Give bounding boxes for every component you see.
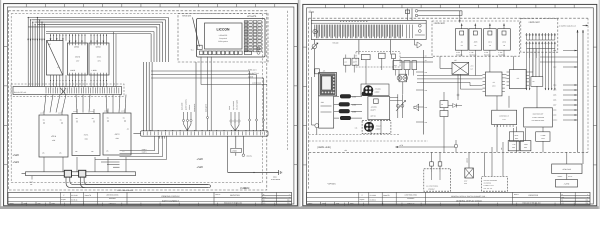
wire fan group 1	[183, 112, 185, 124]
svg-text:=S20+S20: =S20+S20	[434, 22, 446, 25]
unit box -GP 2 top pin stubs	[107, 109, 109, 114]
wire fan group 2	[230, 112, 232, 125]
svg-text:003: 003	[287, 203, 290, 205]
horizontal runs above busbar	[95, 158, 120, 160]
crossing wires in strip	[61, 88, 67, 95]
earth wire below strip	[313, 40, 315, 45]
svg-text:-MT: -MT	[48, 43, 51, 46]
relay -K1 top pin	[461, 24, 463, 29]
page2 title block frame	[307, 192, 591, 204]
power supply module -G1 1 box	[89, 43, 109, 75]
relay -K6 1 bottom drop	[489, 50, 491, 56]
earth cable curve 2	[80, 177, 208, 188]
svg-text:GENERAL DISPLAY: GENERAL DISPLAY	[161, 195, 180, 198]
svg-text:L5B: L5B	[501, 148, 503, 150]
svg-text:1.16 V: 1.16 V	[58, 113, 62, 115]
component row right of relays	[361, 55, 370, 60]
enclosure right dashed boundary	[287, 11, 289, 150]
svg-text:C4BEN: C4BEN	[240, 187, 249, 190]
svg-text:SCRN: SCRN	[352, 97, 356, 99]
bw wires	[566, 152, 568, 164]
svg-text:GENL: GENL	[515, 135, 519, 137]
relay -K6 2 bottom drop	[503, 50, 505, 56]
svg-text:+L1: +L1	[191, 49, 194, 52]
relay -K3 small box	[352, 58, 359, 65]
svg-text:002: 002	[586, 200, 589, 202]
relay -K2 small box	[344, 58, 351, 65]
box GENL DISP small	[509, 132, 523, 142]
dash box =S20+S22	[521, 18, 558, 52]
page1 title block frame	[8, 192, 292, 204]
mini LICCON display panel	[319, 73, 337, 96]
wire staircase bundle corners	[168, 18, 170, 63]
box MONITOR CRT	[524, 108, 553, 127]
svg-text:AMBER: AMBER	[558, 176, 563, 178]
indicator lamp 2	[403, 76, 408, 81]
diode symbols	[453, 104, 457, 108]
svg-text:lfd: lfd	[562, 200, 564, 202]
pin grid rows	[526, 33, 528, 40]
corner wire y84.5	[200, 57, 202, 85]
svg-text:CCM-system: CCM-system	[218, 40, 228, 43]
svg-text:TEST: TEST	[541, 138, 545, 140]
ferrite sleeve 4	[340, 116, 350, 119]
ferrite wires	[334, 95, 339, 97]
relay -K6 2 top pin	[503, 24, 505, 29]
wire -W40B with label	[235, 136, 237, 148]
svg-text:-GP B: -GP B	[51, 135, 57, 138]
svg-text:SCREEN BAR: SCREEN BAR	[252, 82, 261, 84]
page2 revision history cells	[320, 202, 322, 205]
relay bank -K11	[393, 61, 402, 70]
svg-text:L5D6: L5D6	[553, 100, 557, 102]
interconnect wires	[417, 75, 483, 77]
svg-text:SCRN: SCRN	[352, 105, 356, 107]
strip top tiny marks	[340, 20, 341, 22]
page2 drawing title cell	[425, 192, 427, 204]
svg-text:=S20+S22: =S20+S22	[528, 21, 540, 24]
plug contacts	[415, 10, 418, 13]
svg-text:SCRN: SCRN	[352, 112, 356, 114]
-G1 M internal pin marks	[69, 43, 71, 45]
page1 register cell	[261, 192, 263, 204]
relay -K1 bottom drop	[461, 50, 463, 56]
svg-text:+S20: +S20	[197, 158, 204, 161]
svg-text:L5D2: L5D2	[553, 67, 557, 69]
svg-text:von: von	[562, 203, 564, 205]
junction box ground circle	[315, 124, 319, 128]
arrow label +S7B	[396, 146, 456, 148]
svg-text:L5D3: L5D3	[553, 85, 557, 87]
flag triangle below strip	[417, 42, 422, 48]
mini panel screen	[322, 76, 331, 90]
amber wire to lamp	[468, 152, 470, 168]
wire -W40B drop	[227, 136, 229, 172]
box C4DN	[520, 141, 531, 151]
enclosure cabinet dash box inner	[11, 14, 262, 183]
svg-text:-NT 1: -NT 1	[84, 134, 89, 137]
svg-text:1.16 V: 1.16 V	[104, 111, 108, 113]
page1 ruler ticks	[25, 4, 27, 7]
enclosure cabinet +S20 dash box outer	[8, 11, 267, 190]
svg-text:+S20: +S20	[13, 154, 20, 157]
wire from strip to converter	[440, 67, 452, 69]
left wire drop	[311, 77, 313, 125]
svg-text:u xxx: u xxx	[502, 119, 506, 121]
svg-text:003: 003	[586, 203, 589, 205]
IC row top bus horizontals	[46, 31, 154, 33]
relay -K6 B bottom drop	[474, 50, 476, 56]
unit box -GP B top pin stubs	[43, 111, 45, 116]
page2 date name cells	[358, 192, 360, 204]
ladder long feed wires	[540, 56, 578, 58]
IC -A2 side pins	[507, 71, 510, 73]
dashed box LVL conditioning	[424, 169, 451, 191]
small modules right	[531, 77, 543, 87]
svg-text:REGISTER: REGISTER	[230, 194, 240, 197]
relay -K6 1 top pin	[489, 24, 491, 29]
IC -A1 side pins	[483, 74, 486, 76]
svg-text:L5D7: L5D7	[553, 105, 557, 107]
wire drop x359	[358, 40, 360, 55]
page1 inner border frame	[7, 7, 294, 204]
strip -X80 sparse right pins	[406, 25, 408, 39]
page1 date name cells	[59, 192, 61, 204]
wires above C4D boxes	[513, 128, 515, 141]
strip -X80 socket circle	[313, 29, 317, 33]
fuses into dashed box	[431, 152, 433, 162]
unit box -NT 1	[72, 114, 100, 156]
wires into slip ring box	[484, 152, 486, 176]
ferrite sleeve 2	[339, 103, 349, 106]
svg-text:Ges: Ges	[562, 197, 565, 199]
LICCON bottom key row	[200, 51, 204, 55]
svg-text:L5D10: L5D10	[553, 120, 557, 122]
distribution wire x423	[423, 50, 425, 135]
round connector -X5	[361, 84, 389, 96]
svg-text:Ges: Ges	[263, 197, 266, 199]
LICCON monitor panel outer	[197, 19, 266, 58]
ladder stubs	[563, 50, 578, 52]
svg-text:SLIP RING TRANSMSN: SLIP RING TRANSMSN	[484, 180, 498, 182]
svg-text:-C4D: -C4D	[512, 144, 515, 146]
page1 sheet number cells	[262, 194, 292, 196]
relay module -K6 B	[469, 29, 482, 51]
svg-text:L5D: L5D	[425, 90, 428, 92]
transformer T1 box	[47, 41, 64, 76]
svg-text:1.16 V: 1.16 V	[40, 113, 44, 115]
svg-text:LICCON: LICCON	[217, 28, 231, 32]
box GENL DISP main	[552, 164, 582, 174]
svg-text:-G1 M: -G1 M	[75, 56, 81, 59]
svg-text:VIA CENTRE: VIA CENTRE	[484, 183, 492, 185]
terminal strip -X1 pins	[143, 132, 145, 136]
IC row bottom pin wires	[50, 75, 52, 87]
IC row top pin wires	[50, 34, 52, 41]
svg-text:AUX - NO - CO: AUX - NO - CO	[484, 188, 493, 190]
svg-text:1: 1	[310, 9, 311, 12]
connector at pointer end	[197, 45, 202, 49]
svg-text:ASSEMBLY: ASSEMBLY	[428, 188, 435, 190]
earth clamp 1	[64, 170, 71, 177]
circuit breaker -F1	[407, 9, 409, 21]
ferrite top	[362, 92, 372, 96]
sheet arrow symbol top-left	[309, 11, 314, 13]
svg-text:Computed: Computed	[219, 37, 227, 40]
LICCON panel mounting screws	[257, 51, 260, 54]
LICCON screen bezel	[205, 23, 243, 49]
svg-text:L5D: L5D	[425, 72, 428, 74]
wire bundle top-left verticals	[27, 18, 29, 87]
box CONTROLS 5	[492, 110, 517, 124]
lamp crossed box	[465, 168, 474, 178]
busbar tap label	[31, 176, 33, 180]
svg-text:EARTH CONNECT: EARTH CONNECT	[162, 200, 180, 203]
terminal strip -X1 body	[141, 131, 268, 136]
relay module -K1	[455, 29, 468, 51]
svg-text:L5D9: L5D9	[553, 115, 557, 117]
indicator lamp 1	[397, 76, 402, 81]
LICCON drop wires	[207, 57, 209, 131]
svg-text:CHK: CHK	[464, 183, 467, 185]
relay -K4 column	[440, 101, 448, 108]
relay bank pins	[395, 70, 397, 76]
svg-text:GMB(H) 42: GMB(H) 42	[109, 203, 116, 205]
A6 bottom drops	[370, 120, 372, 135]
box B+W	[556, 180, 578, 188]
strip -X1 left tail	[133, 133, 140, 135]
earth clamp 2	[79, 170, 86, 177]
svg-text:REG: REG	[512, 147, 515, 149]
power supply module -G1 M box	[68, 43, 88, 75]
controls bottom pins	[494, 125, 496, 127]
svg-text:DISP: DISP	[515, 138, 518, 140]
svg-text:[X8ZB +K4K]: [X8ZB +K4K]	[318, 146, 332, 149]
svg-text:L5D5: L5D5	[553, 95, 557, 97]
relay module -K6 1	[484, 29, 497, 51]
svg-text:12 INCH COLOUR: 12 INCH COLOUR	[532, 117, 544, 119]
svg-text:-GP 2: -GP 2	[115, 133, 120, 136]
svg-text:-A5: -A5	[323, 69, 326, 72]
svg-text:-C4DN: -C4DN	[523, 144, 527, 146]
relay module -K6 2	[498, 29, 511, 51]
dashed sub-box component row	[356, 52, 400, 68]
wire bundle top horizontals	[29, 17, 169, 19]
earth cable curve 1	[66, 177, 208, 188]
relay -K6 B top pin	[474, 24, 476, 29]
page2 outer border frame	[303, 4, 597, 205]
IC box -A1	[485, 72, 502, 96]
svg-text:AMBER: AMBER	[467, 158, 469, 163]
inner dash boundary [X8ZB]	[309, 134, 400, 136]
svg-text:REGISTER: REGISTER	[529, 194, 539, 197]
page1 drawing title cell	[126, 192, 128, 204]
svg-text:GMB(H) 42: GMB(H) 42	[407, 203, 414, 205]
svg-text:L5D8: L5D8	[553, 110, 557, 112]
svg-text:LIEBHERR: LIEBHERR	[219, 34, 228, 37]
bus verticals to strip	[113, 32, 115, 87]
page2 register cell	[560, 192, 562, 204]
feed drop arrow	[459, 11, 461, 23]
svg-text:-G1 1: -G1 1	[97, 56, 102, 59]
round connector -X6 dashed box	[362, 121, 391, 134]
feed wires right from component row	[400, 56, 433, 58]
busbar left arrow	[22, 173, 26, 175]
dashed box slip ring	[482, 177, 508, 192]
terminal strip X-AP dashed enclosure	[11, 84, 124, 97]
ferrite sleeve 1	[340, 95, 350, 98]
svg-text:WHITE: WHITE	[568, 176, 572, 178]
svg-text:GENERAL DISPLAY CHECK: GENERAL DISPLAY CHECK	[456, 200, 483, 203]
svg-text:* OPTION: * OPTION	[327, 182, 336, 185]
wire returns under LICCON	[151, 70, 249, 72]
wire bundle LICCON drop to strip	[142, 62, 144, 131]
earth busbar	[26, 172, 136, 176]
svg-text:SPAN DIS: SPAN DIS	[182, 15, 192, 18]
svg-text:L5D: L5D	[425, 122, 428, 124]
svg-text:1.16 V: 1.16 V	[121, 111, 125, 113]
svg-text:+ LAMP: + LAMP	[541, 135, 546, 137]
page2 sheet number cells	[561, 194, 591, 196]
relay row drop wires	[474, 56, 476, 75]
junction box below panel	[319, 96, 334, 128]
svg-text:+S20: +S20	[197, 166, 204, 169]
page2 inner border frame	[307, 8, 594, 204]
DC converter crossed box	[452, 62, 469, 74]
LICCON key grid	[244, 21, 248, 23]
page1 outer border frame	[4, 4, 298, 206]
unit box -GP B	[39, 115, 68, 157]
pointer wire diagonal	[193, 18, 200, 47]
earth electrode run	[228, 172, 279, 174]
converter bottom drop	[457, 74, 459, 100]
ferrite sleeve 3	[339, 110, 349, 113]
strip -X80 pin pairs	[314, 25, 316, 37]
unit box bottom drops	[43, 157, 45, 172]
strip -X1 bottom stubs	[159, 136, 161, 138]
svg-text:REG: REG	[524, 147, 527, 149]
ladder into GENL DISP	[582, 164, 584, 168]
circuit breaker -F2	[411, 9, 413, 21]
earth cable end cap	[208, 185, 211, 188]
page1 revision history cells	[21, 202, 23, 205]
wire drop x390	[390, 40, 392, 55]
wire to X5	[365, 70, 367, 84]
inner dash boundary 2	[309, 140, 428, 142]
unit box -GP 2	[103, 113, 131, 155]
long wire x196	[195, 62, 197, 131]
small box C4D+S4	[512, 141, 514, 143]
svg-text:LCD DISPLAY UNIT: LCD DISPLAY UNIT	[532, 120, 545, 122]
svg-text:GENERAL DISPLAY SWITCH CABINET: GENERAL DISPLAY SWITCH CABINET (A/D ...	[451, 195, 488, 198]
terminal small box -X9	[399, 74, 407, 82]
svg-text:12V: 12V	[471, 69, 474, 71]
svg-text:L5D4: L5D4	[553, 90, 557, 92]
speaker	[414, 104, 419, 111]
wire corner returns below strip	[154, 136, 156, 151]
monitor adapter box -A6	[368, 97, 390, 120]
relay drops to panel	[345, 65, 347, 72]
svg-text:-U1: -U1	[57, 66, 60, 69]
mini panel bottom keys	[322, 91, 324, 93]
LICCON panel enclosure +P1 dash box	[178, 14, 268, 63]
page2 cabinet enclosure dash box	[308, 18, 310, 188]
box C4D	[508, 141, 519, 151]
transformer T1 diagonal	[47, 41, 63, 75]
unit box -NT 1 top pin stubs	[76, 109, 78, 114]
=S22 grid drop wires	[526, 49, 528, 91]
page2 ruler ticks	[324, 4, 326, 7]
dash box =S20+S20	[432, 21, 520, 56]
svg-text:002: 002	[287, 200, 290, 202]
terminal strip X-AP body	[13, 87, 122, 95]
svg-text:lfd: lfd	[263, 200, 265, 202]
-G1 1 internal pin marks	[90, 43, 92, 45]
in-line socket circle	[454, 144, 458, 148]
earth electrode symbol	[278, 170, 280, 175]
mini panel key column	[333, 76, 335, 78]
svg-text:+P1+P1: +P1+P1	[247, 15, 257, 18]
svg-text:1.16 V: 1.16 V	[90, 111, 94, 113]
box LAMP small	[536, 132, 550, 142]
fan wires strip to units	[44, 95, 46, 113]
signal ladder verticals	[577, 30, 579, 152]
small box left of panel	[315, 69, 320, 74]
IC box -A2	[509, 70, 526, 89]
svg-text:LVL CONDITIONING: LVL CONDITIONING	[426, 186, 438, 188]
ladder top arrows	[577, 30, 579, 33]
page2 main terminal strip -X80	[311, 20, 426, 39]
svg-text:+S23: +S23	[13, 161, 20, 164]
svg-text:eingabe: eingabe	[61, 199, 66, 201]
contact ladder wires	[397, 94, 399, 118]
svg-text:L5D1: L5D1	[553, 50, 557, 52]
svg-text:1 CORE 2x4 mm 1: 1 CORE 2x4 mm 1	[484, 185, 495, 187]
wires A6 to ladder	[390, 97, 398, 99]
feed wires right	[418, 10, 462, 12]
svg-text:eingabe: eingabe	[360, 199, 365, 201]
terminal strip X-AP pins	[45, 88, 47, 94]
wire with ring terminal	[242, 136, 244, 154]
svg-text:L5D: L5D	[425, 107, 428, 109]
scan edge shading	[0, 0, 1, 209]
svg-text:1.16 V: 1.16 V	[73, 111, 77, 113]
svg-text:von: von	[263, 203, 265, 205]
